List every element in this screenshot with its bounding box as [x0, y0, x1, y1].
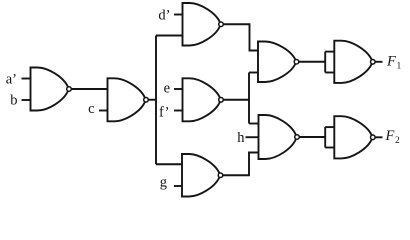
NAND gate G8 (output inverter for F1)	[334, 41, 375, 83]
svg-text:f’: f’	[159, 105, 169, 121]
wire G1 output to G2 top input	[71, 88, 107, 90]
NAND gate G1 (inputs a', b)	[31, 68, 72, 111]
NAND gate G6 (second level, F1 branch)	[258, 42, 299, 83]
svg-text:F: F	[386, 54, 396, 70]
wire junction to G6 bottom input	[249, 72, 258, 74]
wire G9 output	[375, 136, 382, 138]
svg-text:F: F	[385, 128, 395, 144]
svg-text:a’: a’	[6, 71, 17, 87]
wire bar to G8 top input	[325, 51, 334, 53]
svg-text:h: h	[237, 130, 245, 146]
wire bar to G9 bottom input	[325, 147, 334, 149]
wire fanout to G5 upper input	[156, 163, 182, 165]
wire bar to G9 top input	[325, 126, 334, 128]
NAND gate G3 (input d')	[183, 3, 224, 46]
wire d' stub	[174, 14, 183, 16]
wire G3 output to G6 top input	[223, 24, 258, 50]
svg-text:2: 2	[395, 136, 400, 146]
wire e stub	[174, 88, 183, 90]
wire junction vertical (G4 output fans up and down)	[248, 73, 250, 124]
F1 inverter input bar	[324, 52, 326, 73]
NAND gate G2 (input c)	[108, 78, 149, 121]
wire f' stub	[174, 110, 183, 112]
wire h stub	[246, 136, 259, 138]
svg-text:d’: d’	[158, 8, 170, 24]
wire a' stub	[22, 78, 31, 80]
NAND gate G4 (inputs e, f')	[183, 78, 224, 121]
NAND gate G7 (second level, F2 branch, 3 inputs)	[259, 115, 300, 159]
svg-text:g: g	[160, 175, 167, 191]
wire G7 output to F2 inverter bar	[299, 136, 325, 138]
wire G8 output	[375, 61, 382, 63]
wire G4 output to junction	[223, 99, 249, 101]
svg-text:c: c	[88, 101, 94, 117]
svg-text:b: b	[10, 93, 17, 109]
wire g stub	[174, 185, 182, 187]
F2 inverter input bar	[324, 127, 326, 147]
NAND gate G5 (input g)	[182, 154, 223, 197]
wire junction to G7 top input	[249, 123, 259, 125]
svg-text:1: 1	[397, 62, 402, 72]
svg-text:e: e	[164, 81, 170, 97]
wire G2 output to fanout node	[148, 99, 156, 101]
wire G6 output to F1 inverter bar	[299, 61, 325, 63]
wire fanout to G3 lower input	[156, 35, 183, 37]
wire b stub	[22, 99, 31, 101]
wire bar to G8 bottom input	[325, 72, 334, 74]
wire c stub	[99, 110, 108, 112]
wire fanout vertical	[155, 36, 157, 165]
wire G5 output to G7 bottom input	[223, 153, 259, 176]
NAND gate G9 (output inverter for F2)	[334, 116, 375, 158]
